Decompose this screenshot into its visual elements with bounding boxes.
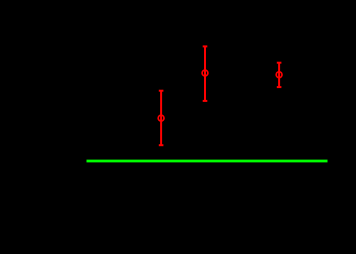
data point 3 marker [276, 72, 282, 78]
data point 1 error bar [159, 91, 164, 146]
data point 2 marker [202, 70, 208, 76]
green horizontal limit line [87, 160, 328, 163]
data point 2 error bar [203, 46, 208, 101]
data point 1 marker [158, 115, 164, 121]
data point 3 error bar [277, 63, 282, 87]
